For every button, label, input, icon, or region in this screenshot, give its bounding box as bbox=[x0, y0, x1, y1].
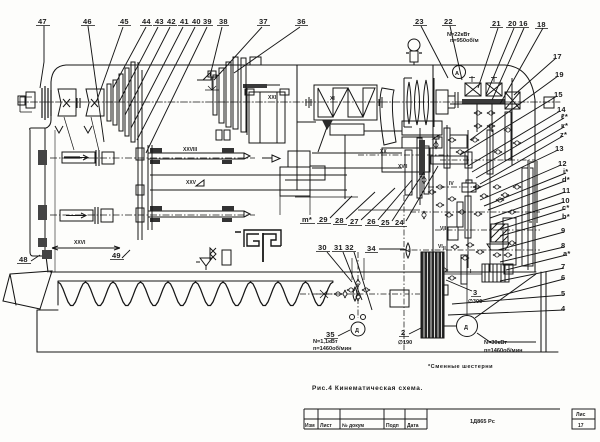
gear cluster shaft III bbox=[444, 128, 450, 168]
svg-text:№ докум: № докум bbox=[342, 423, 364, 429]
bed top line bbox=[50, 271, 536, 273]
coupling between pulleys bbox=[77, 98, 80, 108]
svg-text:XXVI: XXVI bbox=[74, 240, 86, 246]
svg-text:z*: z* bbox=[560, 130, 567, 139]
feed rod cylinder 1 bbox=[62, 152, 95, 163]
svg-text:Лис: Лис bbox=[576, 412, 586, 418]
pulley box 2 with X bbox=[86, 89, 104, 116]
svg-text:N=30кВт: N=30кВт bbox=[484, 340, 507, 346]
vertical belt axis to countershaft bbox=[403, 195, 405, 350]
svg-text:XXVIII: XXVIII bbox=[183, 147, 198, 153]
gearbox shaft XX axis bbox=[358, 154, 448, 156]
svg-text:40: 40 bbox=[192, 17, 201, 26]
headstock top small boxes bbox=[250, 57, 261, 65]
motor 1 drive line bbox=[357, 252, 359, 318]
gearbox vertical shaft lines bbox=[420, 125, 528, 272]
svg-text:21: 21 bbox=[492, 19, 501, 28]
gear cluster XVII bbox=[417, 138, 422, 198]
bracket under cone box bbox=[330, 124, 364, 135]
svg-text:30: 30 bbox=[318, 243, 327, 252]
svg-text:4: 4 bbox=[561, 304, 566, 313]
left column gear bottom bbox=[38, 238, 47, 247]
svg-text:41: 41 bbox=[180, 17, 189, 26]
svg-text:6: 6 bbox=[561, 273, 565, 282]
svg-text:∅306: ∅306 bbox=[468, 298, 482, 305]
top right gear boxes bbox=[469, 76, 497, 82]
svg-text:3: 3 bbox=[473, 288, 477, 297]
right cone pulley lens stack bbox=[407, 82, 411, 124]
svg-text:a*: a* bbox=[563, 249, 571, 258]
svg-text:48: 48 bbox=[19, 255, 28, 264]
svg-text:5: 5 bbox=[561, 289, 565, 298]
inner wall left bbox=[54, 130, 56, 272]
svg-text:1Д865 Рс: 1Д865 Рс bbox=[470, 419, 495, 425]
svg-text:18: 18 bbox=[537, 20, 546, 29]
svg-text:∅190: ∅190 bbox=[398, 339, 412, 346]
belt arrow under pulley1 bbox=[55, 126, 63, 133]
chuck body bbox=[249, 92, 285, 143]
leadscrew lower bar bbox=[148, 211, 244, 217]
dim arrows XXVI bbox=[52, 246, 120, 250]
leader 35 bbox=[338, 330, 350, 336]
svg-text:Д: Д bbox=[355, 328, 359, 334]
svg-text:44: 44 bbox=[142, 17, 151, 26]
lens pulley on countershaft bbox=[353, 287, 357, 301]
feed rod cylinder 2 bbox=[60, 210, 93, 221]
chuck plates left bbox=[42, 86, 51, 120]
svg-text:c*: c* bbox=[562, 203, 570, 212]
motor 1 bbox=[351, 322, 365, 336]
clutch cone bbox=[197, 72, 211, 80]
svg-text:XX: XX bbox=[380, 149, 387, 155]
svg-text:2: 2 bbox=[401, 328, 405, 337]
svg-text:А: А bbox=[455, 71, 459, 77]
svg-text:Лист: Лист bbox=[320, 423, 332, 429]
dark smudge gear bbox=[243, 84, 267, 88]
gear tall cluster bbox=[465, 196, 471, 238]
svg-text:n=1460об/мин: n=1460об/мин bbox=[313, 345, 352, 352]
bed left step bbox=[37, 310, 58, 352]
svg-text:27: 27 bbox=[350, 217, 359, 226]
svg-text:Подп: Подп bbox=[386, 423, 399, 429]
cover plate right bbox=[522, 168, 533, 266]
spindle nose left parts bbox=[18, 96, 25, 105]
motor2 bbox=[457, 316, 478, 337]
leader fan from top-left labels bbox=[40, 26, 44, 88]
carriage rects under cone bbox=[402, 121, 442, 135]
circle A bbox=[453, 66, 466, 79]
headstock partition wall bbox=[297, 65, 433, 272]
svg-text:ℓ*: ℓ* bbox=[561, 112, 568, 121]
svg-text:36: 36 bbox=[297, 17, 306, 26]
svg-text:17: 17 bbox=[578, 423, 584, 429]
bottom bracket S-shape bbox=[235, 230, 281, 247]
leader 3 bbox=[446, 280, 472, 291]
headstock wall lower bbox=[297, 103, 316, 190]
screw conveyor trough line bbox=[58, 281, 333, 305]
svg-text:43: 43 bbox=[155, 17, 164, 26]
curved belt lever bbox=[380, 88, 396, 145]
svg-text:35: 35 bbox=[326, 330, 335, 339]
belt crossing bowtie bbox=[316, 290, 332, 298]
right frame vertical bbox=[541, 272, 546, 352]
svg-text:24: 24 bbox=[395, 218, 404, 227]
svg-text:16: 16 bbox=[519, 19, 528, 28]
gear stack on spindle bbox=[107, 84, 111, 121]
svg-text:26: 26 bbox=[367, 217, 376, 226]
svg-text:Рис.4 Кинематическая схема.: Рис.4 Кинематическая схема. bbox=[312, 385, 423, 392]
svg-text:11: 11 bbox=[562, 186, 570, 195]
svg-text:*Сменные шестерни: *Сменные шестерни bbox=[428, 364, 493, 370]
pulley lens small bbox=[406, 243, 410, 258]
carb shape on IV bbox=[462, 180, 476, 192]
svg-text:45: 45 bbox=[120, 17, 129, 26]
svg-text:32: 32 bbox=[345, 243, 354, 252]
svg-text:19: 19 bbox=[555, 70, 564, 79]
feed box frame lines bbox=[295, 197, 420, 210]
small gears on rail bbox=[136, 148, 144, 160]
svg-text:46: 46 bbox=[83, 17, 92, 26]
small couplings on countershaft bbox=[334, 292, 343, 296]
cross gear symbol bbox=[356, 279, 360, 288]
left spindle end stubs bbox=[20, 97, 32, 112]
motor2 link line bbox=[475, 274, 536, 318]
chute polygon bbox=[3, 271, 52, 309]
headstock central gear stack bbox=[219, 68, 224, 123]
machine body outline bbox=[46, 65, 535, 272]
leaders top right bbox=[421, 26, 448, 78]
shaft axis 2 bbox=[50, 214, 255, 216]
cone gear hatched bbox=[491, 224, 508, 242]
big X gear right bbox=[505, 92, 520, 109]
svg-text:n=1460об/мин: n=1460об/мин bbox=[484, 347, 523, 354]
apron frame lines bbox=[150, 175, 347, 190]
svg-text:31: 31 bbox=[334, 243, 343, 252]
svg-text:49: 49 bbox=[112, 251, 121, 260]
svg-text:28: 28 bbox=[335, 216, 344, 225]
svg-text:15: 15 bbox=[554, 90, 563, 99]
gear pair symbols scatter bbox=[422, 111, 522, 280]
shifter rail vertical bbox=[138, 62, 142, 240]
leaders right column bbox=[514, 58, 556, 95]
lube valves group bbox=[210, 248, 216, 260]
leaders 30-34 bbox=[327, 252, 352, 282]
svg-text:34: 34 bbox=[367, 244, 376, 253]
svg-text:m*: m* bbox=[302, 215, 312, 224]
svg-text:Дата: Дата bbox=[407, 423, 419, 429]
svg-text:29: 29 bbox=[319, 215, 328, 224]
pulley box 1 with X bbox=[58, 89, 76, 116]
svg-text:37: 37 bbox=[259, 17, 268, 26]
chuck flange ears bbox=[245, 89, 254, 95]
svg-text:N=1,1кВт: N=1,1кВт bbox=[313, 339, 338, 345]
motor1 coupling bbox=[350, 315, 355, 320]
svg-text:22: 22 bbox=[444, 17, 453, 26]
svg-text:13: 13 bbox=[555, 144, 564, 153]
svg-text:XVII: XVII bbox=[398, 164, 408, 170]
left column gear mid bbox=[38, 205, 47, 220]
svg-text:42: 42 bbox=[167, 17, 176, 26]
extra headstock bar bbox=[241, 58, 246, 132]
svg-text:17: 17 bbox=[553, 52, 562, 61]
bed bottom line bbox=[37, 351, 558, 353]
V-belt pulley stack bbox=[421, 252, 444, 338]
countershaft axis horizontal bbox=[300, 293, 420, 295]
svg-text:47: 47 bbox=[38, 17, 47, 26]
collars shaft2 bbox=[95, 207, 98, 224]
svg-text:Д: Д bbox=[464, 325, 468, 331]
cone pulley box bbox=[314, 85, 377, 120]
svg-text:9: 9 bbox=[561, 226, 565, 235]
shaft XIX verticals bbox=[352, 258, 364, 280]
svg-text:IV: IV bbox=[449, 181, 454, 187]
leader 49 bbox=[122, 250, 130, 258]
svg-text:b*: b* bbox=[562, 212, 570, 221]
collars shaft1 bbox=[96, 150, 99, 166]
svg-text:Изм: Изм bbox=[305, 423, 315, 429]
gearbox small rect bbox=[390, 290, 409, 307]
svg-text:7: 7 bbox=[561, 262, 565, 271]
svg-text:к*: к* bbox=[561, 121, 568, 130]
apron block bbox=[448, 227, 458, 240]
left column frame bbox=[30, 128, 45, 256]
svg-text:20: 20 bbox=[508, 19, 517, 28]
leadscrew upper bar bbox=[148, 153, 244, 159]
bracket frame right bbox=[503, 218, 516, 265]
tool post assembly bbox=[280, 167, 310, 196]
title block bbox=[304, 409, 595, 429]
svg-text:XI: XI bbox=[330, 96, 335, 102]
svg-text:XXI: XXI bbox=[268, 95, 277, 101]
screw conveyor spiral bbox=[58, 282, 333, 306]
svg-text:d*: d* bbox=[562, 175, 570, 184]
spindle right end bbox=[436, 90, 448, 114]
svg-text:VIII: VIII bbox=[440, 226, 448, 232]
leader 48 bbox=[31, 255, 40, 261]
worm assembly bbox=[461, 255, 467, 284]
leader 2 bbox=[409, 328, 421, 334]
shaft IV line bbox=[428, 186, 480, 188]
svg-text:XXV: XXV bbox=[186, 180, 197, 186]
svg-text:23: 23 bbox=[415, 17, 424, 26]
bulb on top bbox=[408, 39, 420, 51]
svg-text:38: 38 bbox=[219, 17, 228, 26]
left column gear top bbox=[38, 150, 47, 165]
small gears under stack bbox=[216, 130, 222, 140]
svg-text:25: 25 bbox=[381, 218, 390, 227]
spindle axis XXI bbox=[18, 101, 560, 103]
leaders bottom middle 24-29 bbox=[330, 196, 352, 218]
svg-text:39: 39 bbox=[203, 17, 212, 26]
shaft axis 1 bbox=[50, 157, 255, 159]
motor2 base line bbox=[477, 333, 536, 342]
svg-text:n=950об/м: n=950об/м bbox=[450, 37, 479, 44]
